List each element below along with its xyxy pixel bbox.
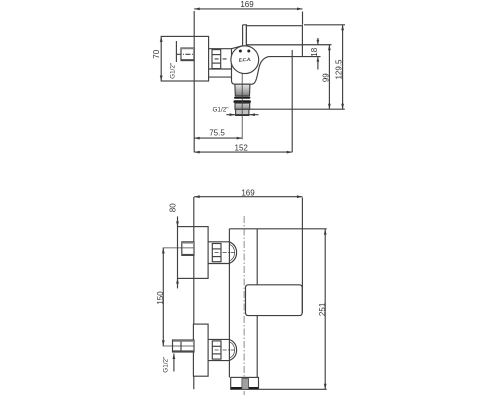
- svg-text:G1/2": G1/2": [162, 357, 169, 373]
- ext line bottom to 251: [259, 388, 327, 390]
- aerator ring 1: [234, 97, 250, 99]
- dim 129.5: [342, 25, 344, 109]
- svg-text:E.C.A.: E.C.A.: [239, 57, 252, 63]
- union nut 1 (plan): [212, 244, 221, 262]
- svg-text:75.5: 75.5: [209, 128, 225, 137]
- body right edge + ext from 169: [301, 198, 303, 314]
- body column right edge lower: [256, 316, 258, 378]
- svg-text:70: 70: [152, 49, 161, 58]
- plan center line (dash-dot): [243, 216, 245, 395]
- dim 70 (on box left edge): [160, 36, 163, 42]
- union sleeve (side view): [209, 48, 232, 50]
- lever handle bar: [246, 26, 302, 45]
- fitting center line: [176, 53, 194, 55]
- dim 169 (plan): [194, 196, 302, 198]
- dim 80 (esc1, arrows outside): [177, 216, 179, 226]
- union nut (side view): [212, 50, 221, 69]
- dim 99: [328, 45, 330, 109]
- svg-text:150: 150: [156, 291, 165, 305]
- svg-text:152: 152: [235, 143, 249, 152]
- recessed mounting box in wall: [161, 36, 208, 81]
- inlet 2 center line (left): [163, 345, 194, 347]
- dim 150 (between inlet axes): [162, 248, 164, 346]
- outlet pipe section: [235, 103, 250, 109]
- svg-text:169: 169: [240, 0, 254, 9]
- dim 251: [324, 229, 326, 389]
- wall line (plan view): [193, 197, 195, 389]
- outlet center line: [241, 74, 243, 140]
- lever handle tip: [243, 25, 247, 46]
- cone 1 (plan): [229, 242, 236, 264]
- svg-text:18: 18: [310, 47, 319, 56]
- cartridge face circle: [231, 46, 259, 74]
- body column left edge: [228, 229, 230, 378]
- inlet 2 tail thread: [173, 340, 195, 352]
- svg-text:G1/2": G1/2": [170, 63, 177, 79]
- G1/2 outlet dim arrows: [226, 114, 258, 116]
- dim 18: [317, 38, 319, 45]
- svg-text:251: 251: [318, 302, 327, 316]
- union nut 2 (plan): [212, 341, 221, 359]
- svg-text:G1/2": G1/2": [212, 107, 228, 114]
- hot/cold indicator dots: [239, 50, 242, 53]
- lower block (spout plan): [246, 285, 303, 316]
- union 1 axis dashes: [215, 252, 237, 254]
- dim 152: [194, 151, 292, 153]
- union 2 axis dashes: [215, 349, 237, 351]
- svg-text:169: 169: [241, 188, 255, 197]
- inlet 1 center line (left): [163, 247, 194, 249]
- cone 2 (plan): [229, 339, 236, 360]
- dim 169 (top view): [194, 8, 302, 10]
- aerator stub (plan): [242, 379, 249, 390]
- wall line through esc1: [193, 227, 195, 279]
- bottom cap (plan): [231, 377, 259, 389]
- inlet 1 thread box: [182, 242, 194, 256]
- spout outlet tailpiece: [235, 84, 250, 96]
- wall thread fitting flange line: [175, 41, 177, 62]
- ext line spout end for 152: [291, 50, 293, 152]
- dim 75.5: [194, 137, 242, 139]
- ext line lever bottom to 99 dim: [302, 44, 331, 46]
- body rear flange bottom line: [209, 76, 232, 78]
- ext line outlet bottom to 99/129.5 dims: [250, 108, 345, 110]
- ext line spout bottom to 18 dim: [302, 56, 320, 58]
- escutcheon 1: [178, 227, 209, 279]
- aerator ring 2: [234, 100, 251, 103]
- G1/2 label + leader (inlet 2): [173, 354, 175, 372]
- wall thread fitting G1/2 (side view): [181, 48, 194, 61]
- outlet thread G1/2: [236, 109, 249, 115]
- body column right edge upper: [256, 229, 258, 285]
- body wedge and spout arm outline: [232, 45, 303, 84]
- svg-text:129.5: 129.5: [334, 59, 343, 80]
- union sleeve 2 (plan): [208, 338, 229, 340]
- ext line right for 169: [302, 12, 304, 25]
- union axis center dashes: [215, 58, 227, 60]
- ext line lever top to 129.5 dim: [304, 24, 345, 26]
- wall line (side view): [193, 11, 195, 152]
- svg-text:80: 80: [169, 203, 178, 212]
- escutcheon 2: [193, 324, 208, 376]
- svg-text:99: 99: [322, 73, 331, 82]
- body top edge + ext to 251: [229, 228, 326, 230]
- union sleeve 1 (plan): [208, 241, 229, 243]
